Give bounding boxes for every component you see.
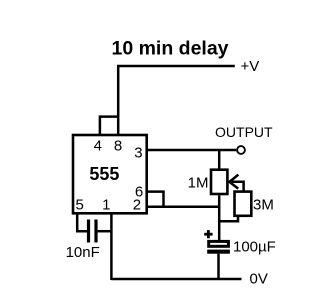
svg-text:10nF: 10nF xyxy=(66,244,100,261)
svg-text:0V: 0V xyxy=(250,271,268,288)
wire pin 2 to main node xyxy=(147,206,220,209)
node OUTPUT open terminal xyxy=(237,146,245,154)
resistor 1M variable body xyxy=(211,170,227,194)
wire 3M bottom to main node xyxy=(219,217,238,221)
wire +V rail and drop to pin 8 xyxy=(118,66,235,136)
wire 10nF to pin 1 line xyxy=(98,230,112,233)
capacitor C2 10nF right plate xyxy=(94,220,97,243)
resistor 3M body xyxy=(235,192,252,216)
svg-text:3: 3 xyxy=(134,144,142,161)
wire output junction down to 1M xyxy=(218,150,221,169)
wiper arrow shaft of 1M pot xyxy=(230,182,244,191)
svg-text:OUTPUT: OUTPUT xyxy=(215,124,273,140)
capacitor C1 100uF plus sign xyxy=(204,230,212,238)
capacitor C1 100uF top plate xyxy=(209,241,229,246)
svg-text:4: 4 xyxy=(94,138,102,155)
svg-text:555: 555 xyxy=(89,164,119,184)
wire 0V rail xyxy=(111,278,241,281)
capacitor C1 100uF bottom plate xyxy=(207,250,230,254)
wiper arrowhead xyxy=(229,175,238,189)
svg-text:10 min delay: 10 min delay xyxy=(111,37,228,59)
svg-text:1M: 1M xyxy=(188,174,209,191)
svg-text:8: 8 xyxy=(114,138,122,155)
op-amp U1 555 IC body xyxy=(73,135,147,213)
wire pin 3 to output terminal xyxy=(147,149,237,152)
svg-text:2: 2 xyxy=(133,196,141,213)
wire capacitor to 0V rail xyxy=(217,254,220,279)
wire pin 5 to 10nF capacitor xyxy=(77,213,87,231)
svg-text:3M: 3M xyxy=(253,196,274,213)
capacitor C2 10nF left plate xyxy=(87,220,90,243)
wire pin 1 down to 0V rail xyxy=(110,213,113,280)
svg-text:1: 1 xyxy=(102,196,110,213)
wire pin 4 branch to +V drop xyxy=(100,117,117,136)
wire 1M bottom down to capacitor xyxy=(218,195,221,240)
wire pin 6 bracket xyxy=(147,192,164,207)
svg-text:100µF: 100µF xyxy=(233,239,276,256)
svg-text:+V: +V xyxy=(241,58,260,75)
svg-text:5: 5 xyxy=(76,196,84,213)
